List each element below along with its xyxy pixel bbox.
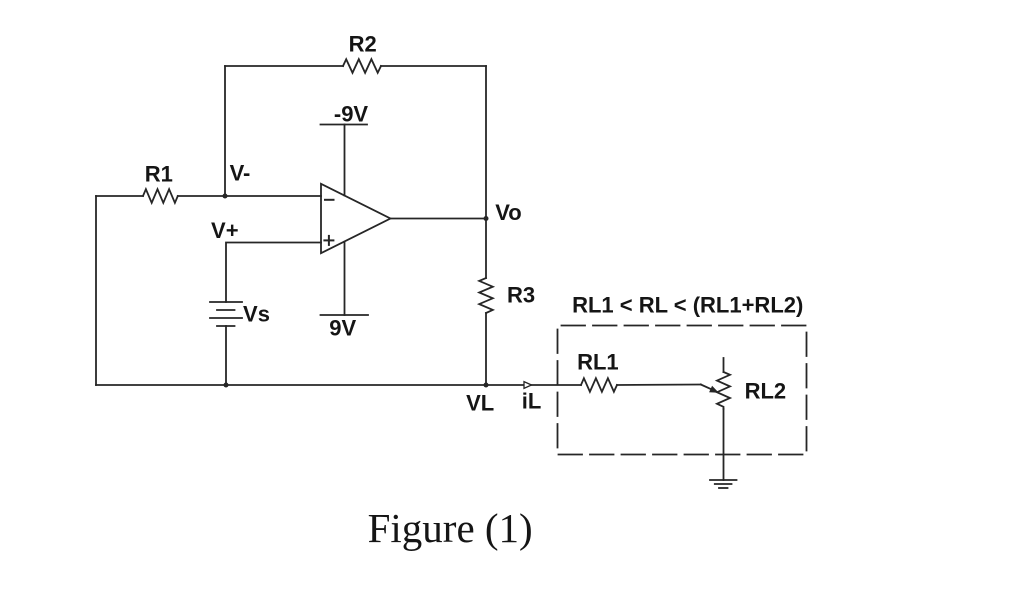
dashed load box <box>558 326 807 455</box>
svg-text:R3: R3 <box>507 283 535 308</box>
wiper arrowhead <box>709 386 719 393</box>
positive supply rail bar <box>321 314 369 316</box>
wire R1 to inverting input <box>178 195 321 197</box>
svg-text:RL2: RL2 <box>745 379 787 404</box>
wire RL1 to wiper <box>617 384 701 387</box>
svg-text:iL: iL <box>522 389 542 414</box>
resistor R2 <box>343 59 381 73</box>
svg-text:VL: VL <box>466 391 494 416</box>
wire right vertical Vo to top <box>485 66 487 219</box>
svg-text:V-: V- <box>230 161 251 186</box>
svg-text:R1: R1 <box>145 162 173 187</box>
wire feedback left vertical <box>224 66 226 196</box>
potentiometer RL2 <box>717 358 730 409</box>
negative supply rail bar <box>321 124 368 126</box>
wire top feedback left segment <box>225 65 343 67</box>
node Vo junction dot <box>484 216 489 221</box>
op-amp non-inverting pin mark <box>324 239 333 241</box>
ground <box>710 480 737 488</box>
wire RL2 to ground <box>723 409 725 480</box>
svg-text:R2: R2 <box>349 32 377 57</box>
op-amp U1 <box>321 184 390 253</box>
battery Vs <box>210 302 242 326</box>
svg-text:RL1 < RL < (RL1+RL2): RL1 < RL < (RL1+RL2) <box>572 293 803 318</box>
current arrow iL <box>524 382 532 389</box>
svg-text:V+: V+ <box>211 218 239 243</box>
node V- junction dot <box>223 194 228 199</box>
wiper arm diagonal <box>701 385 712 390</box>
wire positive supply from op-amp <box>344 242 346 315</box>
resistor R3 <box>479 278 493 313</box>
wire op-amp output <box>390 218 486 220</box>
wire non-inverting input <box>226 243 321 303</box>
svg-text:RL1: RL1 <box>577 350 619 375</box>
resistor R1 <box>143 189 178 203</box>
node VL junction dot <box>484 383 489 388</box>
svg-text:Vs: Vs <box>243 302 270 327</box>
wire bottom bus <box>95 196 97 385</box>
op-amp inverting pin mark <box>325 199 334 201</box>
resistor RL1 <box>581 378 617 392</box>
wire negative supply to op-amp <box>344 125 346 196</box>
svg-text:-9V: -9V <box>334 102 369 127</box>
wire battery to ground bus <box>225 326 227 385</box>
svg-text:Vo: Vo <box>495 200 521 225</box>
wire R3 to VL <box>485 313 487 385</box>
wire input left segment <box>96 195 143 197</box>
svg-text:9V: 9V <box>329 316 356 341</box>
node battery junction dot <box>224 383 229 388</box>
svg-text:Figure (1): Figure (1) <box>368 505 533 551</box>
wire top feedback right segment <box>381 65 486 67</box>
wire Vo to R3 <box>485 219 487 279</box>
